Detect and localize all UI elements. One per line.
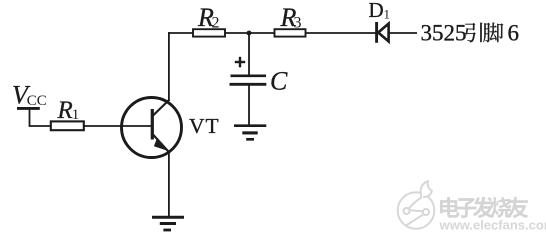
diode D1 xyxy=(375,22,378,43)
Vcc terminal bar xyxy=(17,107,40,110)
svg-text:1: 1 xyxy=(384,7,391,22)
svg-text:1: 1 xyxy=(72,107,80,123)
svg-text:C: C xyxy=(270,67,288,96)
svg-text:CC: CC xyxy=(27,93,47,109)
wire: collector riser xyxy=(168,32,170,101)
resistor R2 xyxy=(193,29,225,36)
transistor VT xyxy=(122,98,182,158)
wire: node to capacitor xyxy=(248,33,250,75)
svg-text:www.elecfans.com: www.elecfans.com xyxy=(439,218,546,233)
resistor R1 xyxy=(51,121,84,130)
polarity plus sign xyxy=(235,61,245,63)
wire: Vcc stub down and right to R1 xyxy=(30,108,51,126)
node: junction of R2/R3/C xyxy=(247,31,252,36)
svg-text:3525: 3525 xyxy=(421,21,467,46)
svg-text:D: D xyxy=(369,0,384,22)
svg-text:VT: VT xyxy=(189,114,220,138)
capacitor C xyxy=(231,75,267,78)
wire: capacitor to ground xyxy=(248,85,250,125)
svg-text:3: 3 xyxy=(294,15,302,32)
ground (emitter) xyxy=(152,216,184,219)
svg-text:R: R xyxy=(57,97,73,124)
wire: top rail from collector riser to R2 xyxy=(168,32,194,34)
svg-text:2: 2 xyxy=(212,15,220,32)
resistor R3 xyxy=(275,29,306,36)
svg-text:6: 6 xyxy=(508,21,520,46)
wire: emitter to ground xyxy=(168,152,170,217)
wire: R3 to diode cathode xyxy=(306,32,376,34)
wire: R2 to R3 through node xyxy=(225,32,275,34)
wire: diode anode to label xyxy=(389,32,417,34)
ground (capacitor) xyxy=(234,124,266,127)
watermark logo xyxy=(398,181,435,229)
wire: R1 to base xyxy=(84,125,151,127)
watermark text xyxy=(440,197,459,218)
